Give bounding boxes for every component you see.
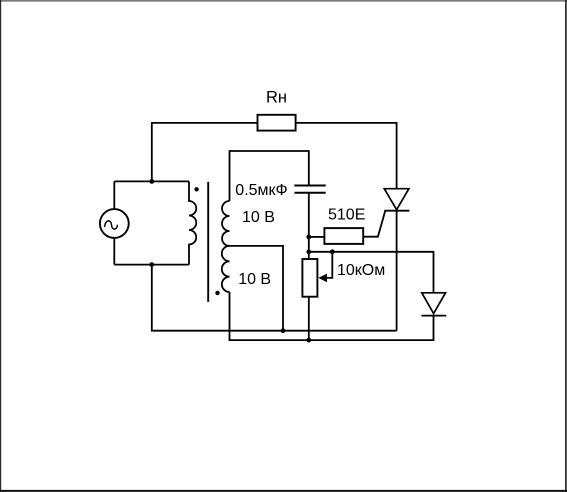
wire resistor 510E to thyristor gate [363,211,385,236]
wire thyristor cathode down to bottom bus [396,211,398,331]
wire wiper of potentiometer [327,252,333,278]
node potentiometer to lower bus [306,338,311,343]
wire potentiometer bottom to lower bus [308,297,310,340]
diode VD1 [422,293,447,316]
svg-text:10 В: 10 В [238,271,271,288]
node A capacitor-resistor junction [306,235,311,240]
wire node A to resistor 510E [309,236,325,238]
thyristor VS1 [384,189,409,211]
node center tap to bottom bus [281,328,286,333]
wire AC loop left with source in line [113,181,115,264]
wire loop bottom junction down and bottom bus to thyristor cathode [152,265,397,331]
wire AC loop bottom [114,264,189,266]
wire node B to diode branch [309,252,434,293]
svg-text:10кОм: 10кОм [337,262,385,279]
wire top-left corner to Rn and down to source loop [152,123,258,181]
node bottom of source loop [149,262,154,267]
wire lower bus secondary bottom to diode cathode [230,292,434,340]
transformer T1 primary winding [189,181,196,264]
wire capacitor bottom to junction node A [308,193,310,259]
secondary phasing dot [215,291,219,295]
wire secondary top to capacitor [230,151,309,201]
potentiometer wiper arrowhead [318,274,327,283]
wire Rn right to thyristor anode [296,123,397,189]
transformer secondary winding upper [222,201,229,246]
svg-text:Rн: Rн [266,89,287,107]
transformer core [207,182,209,302]
node B potentiometer top junction [306,249,311,254]
potentiometer R2 10кОм [302,259,317,297]
wire AC loop top [114,180,189,182]
primary phasing dot [194,187,198,191]
AC source G1 [100,209,129,238]
node top of source loop [149,179,154,184]
transformer secondary winding lower [222,246,230,292]
node wiper junction [330,249,335,254]
svg-text:510Е: 510Е [328,207,365,224]
svg-text:0.5мкФ: 0.5мкФ [235,182,287,199]
capacitor C1 0.5мкФ [294,186,325,193]
svg-text:10 В: 10 В [242,209,275,226]
resistor Rн [258,115,296,131]
resistor 510Е [324,228,363,244]
wire center tap of secondary [230,246,284,331]
